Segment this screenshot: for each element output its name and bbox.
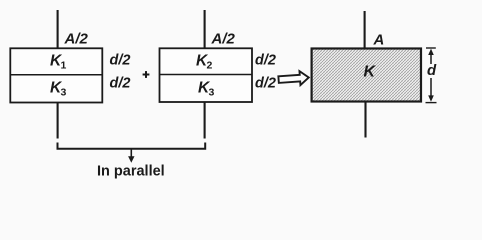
- svg-text:A: A: [373, 32, 385, 49]
- dimension arrow for thickness d: [426, 47, 436, 49]
- svg-text:2: 2: [207, 60, 213, 72]
- capacitor C1 body: [10, 48, 102, 102]
- svg-text:3: 3: [209, 87, 215, 99]
- svg-text:3: 3: [61, 87, 67, 99]
- arrow: points to 'In parallel': [130, 150, 132, 158]
- wire: top lead of equivalent capacitor: [364, 11, 366, 48]
- svg-text:d/2: d/2: [255, 53, 276, 69]
- big hollow arrow (implies equivalence): [278, 71, 309, 87]
- svg-text:K: K: [364, 63, 377, 80]
- svg-text:In parallel: In parallel: [97, 164, 165, 180]
- svg-text:d: d: [427, 62, 437, 79]
- svg-text:d/2: d/2: [255, 76, 276, 92]
- svg-text:d/2: d/2: [110, 53, 131, 69]
- wire: top lead of capacitor 1: [57, 10, 59, 48]
- svg-text:A/2: A/2: [211, 30, 236, 47]
- svg-text:d/2: d/2: [110, 76, 131, 92]
- divider line of capacitor C1: [10, 74, 103, 76]
- wire: bottom lead of capacitor 2: [204, 103, 206, 139]
- wire: bottom lead of equivalent capacitor: [364, 103, 366, 138]
- wire: bottom lead of capacitor 1: [57, 103, 59, 139]
- svg-text:A/2: A/2: [64, 30, 89, 47]
- equivalent capacitor body (hatched dielectric K): [312, 49, 421, 102]
- bracket joining the two bottom leads: [58, 143, 206, 149]
- plus sign between capacitors: [143, 74, 150, 76]
- divider line of capacitor C2: [159, 74, 253, 76]
- svg-text:1: 1: [61, 60, 67, 72]
- capacitor C2 body: [160, 48, 253, 102]
- wire: top lead of capacitor 2: [204, 10, 206, 48]
